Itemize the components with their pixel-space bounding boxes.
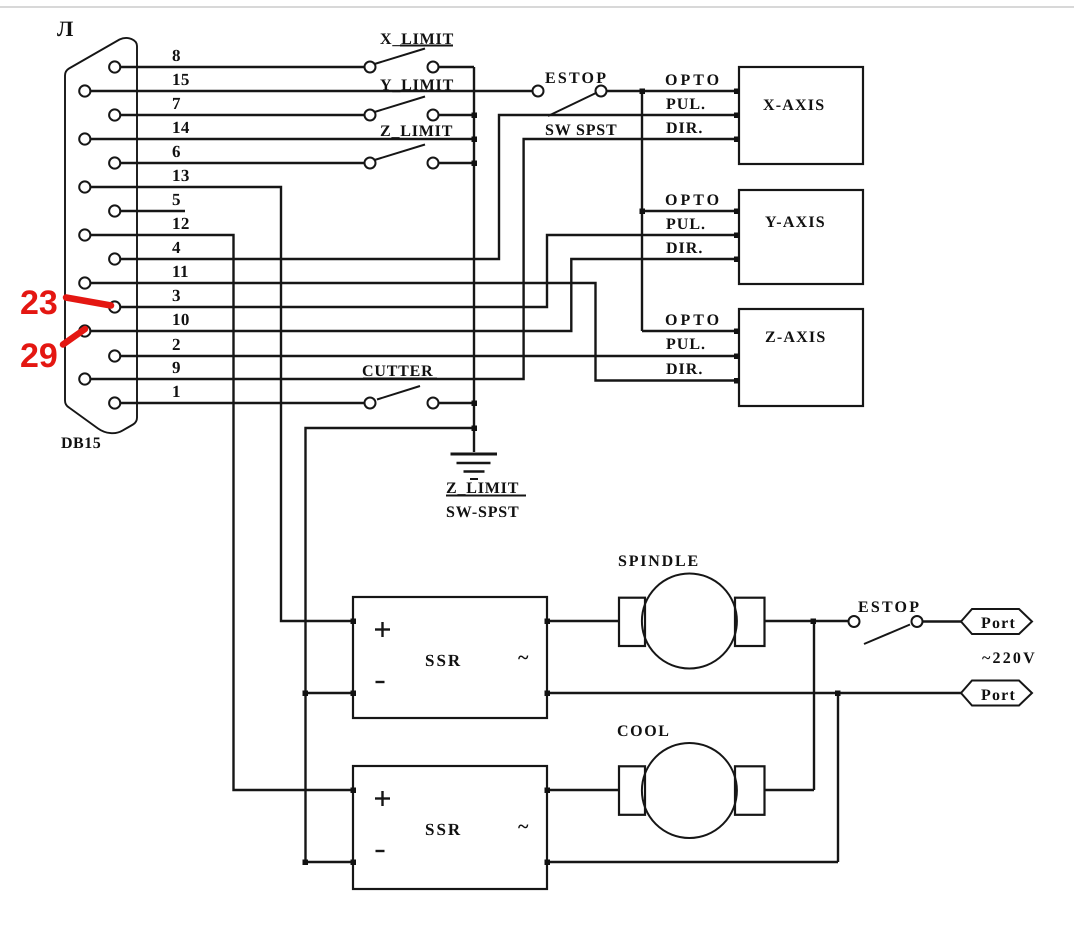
svg-text:DIR.: DIR. (666, 361, 703, 378)
svg-text:~: ~ (518, 816, 530, 838)
svg-text:2: 2 (172, 335, 181, 354)
svg-text:Z_LIMIT: Z_LIMIT (380, 123, 453, 140)
svg-text:13: 13 (172, 166, 190, 185)
svg-text:10: 10 (172, 310, 190, 329)
svg-text:1: 1 (172, 382, 181, 401)
svg-text:Port: Port (981, 615, 1016, 632)
svg-text:SSR: SSR (425, 820, 462, 839)
svg-text:Y_LIMIT: Y_LIMIT (380, 77, 454, 94)
svg-text:DB15: DB15 (61, 435, 101, 452)
svg-text:14: 14 (172, 118, 190, 137)
svg-text:OPTO: OPTO (665, 192, 722, 209)
svg-text:6: 6 (172, 142, 181, 161)
svg-text:ESTOP: ESTOP (545, 70, 608, 87)
svg-text:9: 9 (172, 358, 181, 377)
svg-text:DIR.: DIR. (666, 120, 703, 137)
svg-text:Л: Л (57, 16, 75, 41)
svg-text:5: 5 (172, 190, 181, 209)
svg-text:8: 8 (172, 46, 181, 65)
svg-text:Y-AXIS: Y-AXIS (765, 214, 826, 231)
svg-text:7: 7 (172, 94, 181, 113)
svg-text:11: 11 (172, 262, 189, 281)
svg-text:PUL.: PUL. (666, 336, 706, 353)
svg-text:PUL.: PUL. (666, 96, 706, 113)
svg-text:15: 15 (172, 70, 190, 89)
svg-text:SSR: SSR (425, 651, 462, 670)
svg-text:X-AXIS: X-AXIS (763, 97, 825, 114)
svg-text:DIR.: DIR. (666, 240, 703, 257)
svg-text:Port: Port (981, 687, 1016, 704)
svg-text:PUL.: PUL. (666, 216, 706, 233)
svg-text:SPINDLE: SPINDLE (618, 553, 700, 570)
svg-text:Z_LIMIT: Z_LIMIT (446, 480, 519, 497)
svg-text:SW SPST: SW SPST (545, 122, 617, 139)
svg-text:3: 3 (172, 286, 181, 305)
svg-text:OPTO: OPTO (665, 312, 722, 329)
svg-text:~220V: ~220V (982, 650, 1037, 667)
svg-text:4: 4 (172, 238, 181, 257)
svg-text:23: 23 (20, 284, 58, 322)
svg-text:OPTO: OPTO (665, 72, 722, 89)
svg-text:CUTTER: CUTTER (362, 363, 433, 380)
svg-text:12: 12 (172, 214, 190, 233)
svg-text:Z-AXIS: Z-AXIS (765, 329, 826, 346)
svg-text:ESTOP: ESTOP (858, 599, 921, 616)
svg-text:~: ~ (518, 647, 530, 669)
svg-text:29: 29 (20, 337, 58, 375)
svg-text:SW-SPST: SW-SPST (446, 504, 519, 521)
svg-text:COOL: COOL (617, 723, 671, 740)
